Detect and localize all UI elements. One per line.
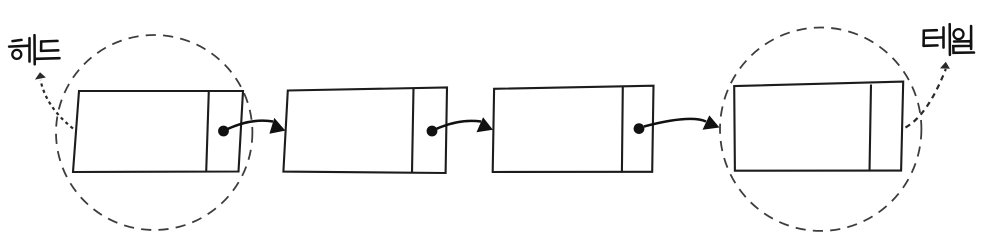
- node 4 box: [734, 82, 903, 171]
- arrowhead node2 to node3: [477, 117, 493, 132]
- arrowhead of head label arrow: [35, 72, 46, 79]
- node 2 box: [283, 88, 447, 174]
- node 2 pointer dot: [427, 126, 438, 137]
- arrow node2 to node3: [437, 121, 482, 129]
- arrow node3 to node4: [644, 119, 706, 127]
- node 4 pointer divider: [870, 85, 872, 172]
- arrowhead node3 to node4: [703, 115, 720, 129]
- node 3 pointer divider: [621, 87, 624, 173]
- dashed arrow from node4 to tail label: [906, 69, 946, 128]
- node 3 pointer dot: [634, 123, 645, 134]
- node 2 pointer divider: [412, 88, 414, 172]
- arrowhead node1 to node2: [269, 118, 285, 134]
- arrow node1 to node2: [228, 121, 273, 129]
- dashed circle around head node: [56, 35, 252, 230]
- node 3 box: [493, 86, 654, 172]
- dotted arrow from node1 to head label: [41, 80, 74, 129]
- tail label text "테일" drawn as strokes: [924, 24, 974, 55]
- arrowhead of tail label arrow: [940, 62, 950, 69]
- node 1 pointer divider: [206, 91, 209, 172]
- node 1 box: [73, 91, 243, 172]
- dashed circle around tail node: [720, 28, 921, 231]
- head label text "헤드" drawn as strokes: [9, 35, 59, 64]
- node 1 pointer dot: [218, 126, 229, 137]
